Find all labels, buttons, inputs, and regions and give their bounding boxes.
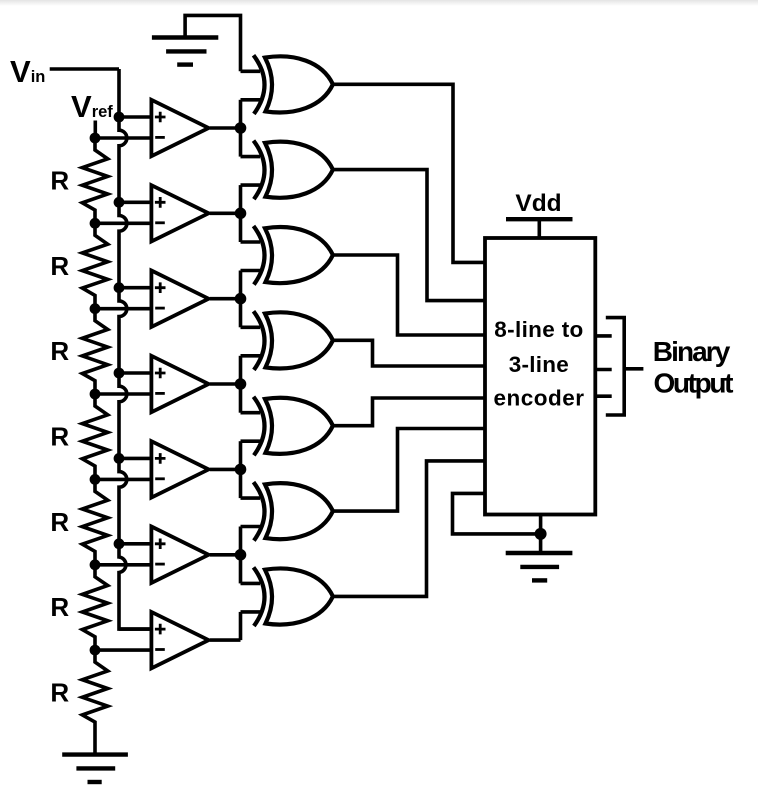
node Vin bus junction at U2 xyxy=(114,197,125,208)
wire XOR X3 output to encoder input 3 xyxy=(333,255,485,335)
node ladder tap 3 xyxy=(90,389,101,400)
resistor R5 xyxy=(82,479,107,564)
svg-text:encoder: encoder xyxy=(494,386,585,411)
svg-text:R: R xyxy=(50,592,69,622)
op-amp comparator U3 xyxy=(151,271,208,327)
svg-text:8-line to: 8-line to xyxy=(494,317,583,342)
resistor R2 xyxy=(82,223,107,308)
wire riser from XOR X1 input to XOR X2 input xyxy=(239,100,243,157)
node ladder tap 2 xyxy=(90,303,101,314)
wire encoder output bit 1 stub xyxy=(595,368,611,372)
wire riser from XOR X2 input to XOR X3 input xyxy=(239,185,243,242)
wire riser from XOR X6 input to XOR X7 input xyxy=(239,527,243,584)
wire XOR X4 output to encoder input 4 xyxy=(333,340,485,366)
wire ladder tap 1 to comparator U2 minus input xyxy=(95,222,150,226)
wire XOR X2 top input stub xyxy=(241,155,261,159)
op-amp comparator U7 xyxy=(151,612,208,668)
wire Vin bus (hops over ladder taps) xyxy=(119,69,150,629)
svg-text:Binary: Binary xyxy=(653,336,731,367)
wire comparator U7 output xyxy=(210,638,241,642)
wire comparator U5 output xyxy=(210,468,241,472)
encoder U8 (8-line to 3-line) xyxy=(485,238,595,515)
wire comparator U6 output xyxy=(210,553,241,557)
svg-text:R: R xyxy=(50,421,69,451)
wire XOR X5 bottom input stub xyxy=(241,439,261,443)
svg-text:3-line: 3-line xyxy=(509,352,569,377)
wire XOR X4 top input stub xyxy=(241,325,261,329)
op-amp comparator U5 xyxy=(151,441,208,497)
wire ladder tap 3 to comparator U4 minus input xyxy=(95,392,150,396)
xor gate X2 xyxy=(254,141,333,200)
wire riser from XOR X3 input to XOR X4 input xyxy=(239,271,243,328)
node comparator U4 output junction xyxy=(235,378,247,390)
xor gate X3 xyxy=(254,226,333,285)
wire ladder tap 5 to comparator U6 minus input xyxy=(95,563,150,567)
wire XOR X7 bottom input stub xyxy=(241,610,261,614)
wire XOR X6 top input stub xyxy=(241,496,261,500)
wire Vin bus to comparator U3 plus input xyxy=(119,286,150,290)
wire XOR X5 top input stub xyxy=(241,411,261,415)
wire XOR X5 output to encoder input 5 xyxy=(333,398,485,426)
power Vdd symbol xyxy=(506,219,573,238)
wire ground to encoder input 8 xyxy=(453,493,541,534)
wire ladder tap 4 to comparator U5 minus input xyxy=(95,478,150,482)
wire XOR X1 bottom input stub xyxy=(241,98,261,102)
op-amp comparator U1 xyxy=(151,100,208,156)
label Binary Output xyxy=(653,336,734,399)
node Vin bus junction at U4 xyxy=(114,368,125,379)
wire XOR X6 bottom input stub xyxy=(241,525,261,529)
svg-text:Vdd: Vdd xyxy=(515,190,561,217)
wire Vin input xyxy=(50,67,119,71)
node ladder tap 4 xyxy=(90,474,101,485)
wire Vin bus to comparator U5 plus input xyxy=(119,457,150,461)
xor gate X6 xyxy=(254,482,333,540)
xor gate X1 xyxy=(254,55,333,114)
svg-text:R: R xyxy=(50,251,69,281)
wire riser from XOR X5 input to XOR X6 input xyxy=(239,441,243,498)
wire comparator U1 output xyxy=(210,126,241,130)
node Vin bus junction at U6 xyxy=(114,538,125,549)
node ladder tap 5 xyxy=(90,559,101,570)
wire Vref stub xyxy=(94,121,98,139)
wire Vin bus to comparator U2 plus input xyxy=(119,201,150,205)
wire XOR X7 top input stub xyxy=(241,582,261,586)
wire ladder tap 6 to comparator U7 minus input xyxy=(95,648,150,652)
svg-text:R: R xyxy=(50,507,69,537)
node ladder tap 6 xyxy=(90,645,101,656)
resistor R6 xyxy=(82,565,107,650)
op-amp comparator U4 xyxy=(151,356,208,412)
label encoder text xyxy=(494,317,585,411)
wire XOR X1 output to encoder input 1 xyxy=(333,84,485,262)
op-amp comparator U2 xyxy=(151,185,208,241)
node comparator U3 output junction xyxy=(235,293,247,305)
wire Vin bus to comparator U7 plus input xyxy=(119,627,150,631)
svg-text:R: R xyxy=(50,336,69,366)
wire Vin bus to comparator U1 plus input xyxy=(119,115,150,119)
wire comparator U3 output xyxy=(210,297,241,301)
node comparator U1 output junction xyxy=(235,122,247,134)
node Vin bus junction at U3 xyxy=(114,282,125,293)
node encoder ground junction xyxy=(535,528,547,540)
wire XOR X3 top input stub xyxy=(241,240,261,244)
node comparator U2 output junction xyxy=(235,208,247,220)
wire XOR X2 bottom input stub xyxy=(241,183,261,187)
resistor R1 xyxy=(82,138,107,223)
ground (bottom of resistor ladder) xyxy=(62,755,128,782)
wire XOR X1 top input stub xyxy=(241,70,261,74)
wire Vin bus to comparator U6 plus input xyxy=(119,542,150,546)
wire XOR X4 bottom input stub xyxy=(241,354,261,358)
xor gate X7 xyxy=(254,567,333,626)
wire comparator U2 output xyxy=(210,212,241,216)
wire comparator U4 output xyxy=(210,382,241,386)
wire ladder tap 2 to comparator U3 minus input xyxy=(95,307,150,311)
wire XOR X7 output to encoder input 7 xyxy=(333,461,485,597)
wire XOR X3 bottom input stub xyxy=(241,269,261,273)
xor gate X5 xyxy=(254,397,333,456)
node Vin bus junction at U1 xyxy=(114,112,125,123)
node ladder tap 1 xyxy=(90,218,101,229)
bracket binary output xyxy=(606,318,644,415)
wire encoder output bit 2 stub xyxy=(595,394,611,398)
wire encoder ground stub xyxy=(539,515,543,554)
node comparator U6 output junction xyxy=(235,549,247,561)
wire riser from XOR X4 input to XOR X5 input xyxy=(239,356,243,413)
op-amp comparator U6 xyxy=(151,527,208,584)
wire ladder tap 0 to comparator U1 minus input xyxy=(95,136,150,140)
node comparator U5 output junction xyxy=(235,464,247,476)
wire Vin bus to comparator U4 plus input xyxy=(119,371,150,375)
wire encoder output bit 0 stub xyxy=(595,334,611,338)
resistor R4 xyxy=(82,394,107,479)
wire comparator U7 output riser to XOR X7 xyxy=(239,612,243,640)
svg-text:R: R xyxy=(50,678,69,708)
node Vin bus junction at U5 xyxy=(114,453,125,464)
wire XOR X6 output to encoder input 6 xyxy=(333,429,485,512)
ground (encoder) xyxy=(506,553,573,580)
ground (top, XOR X1 reference input) xyxy=(152,15,241,71)
resistor R3 xyxy=(82,309,107,394)
wire XOR X2 output to encoder input 2 xyxy=(333,170,485,301)
xor gate X4 xyxy=(254,311,333,370)
node ladder tap 0 xyxy=(90,133,101,144)
svg-text:R: R xyxy=(50,165,69,195)
resistor R7 xyxy=(82,650,107,755)
svg-text:Output: Output xyxy=(654,368,734,399)
